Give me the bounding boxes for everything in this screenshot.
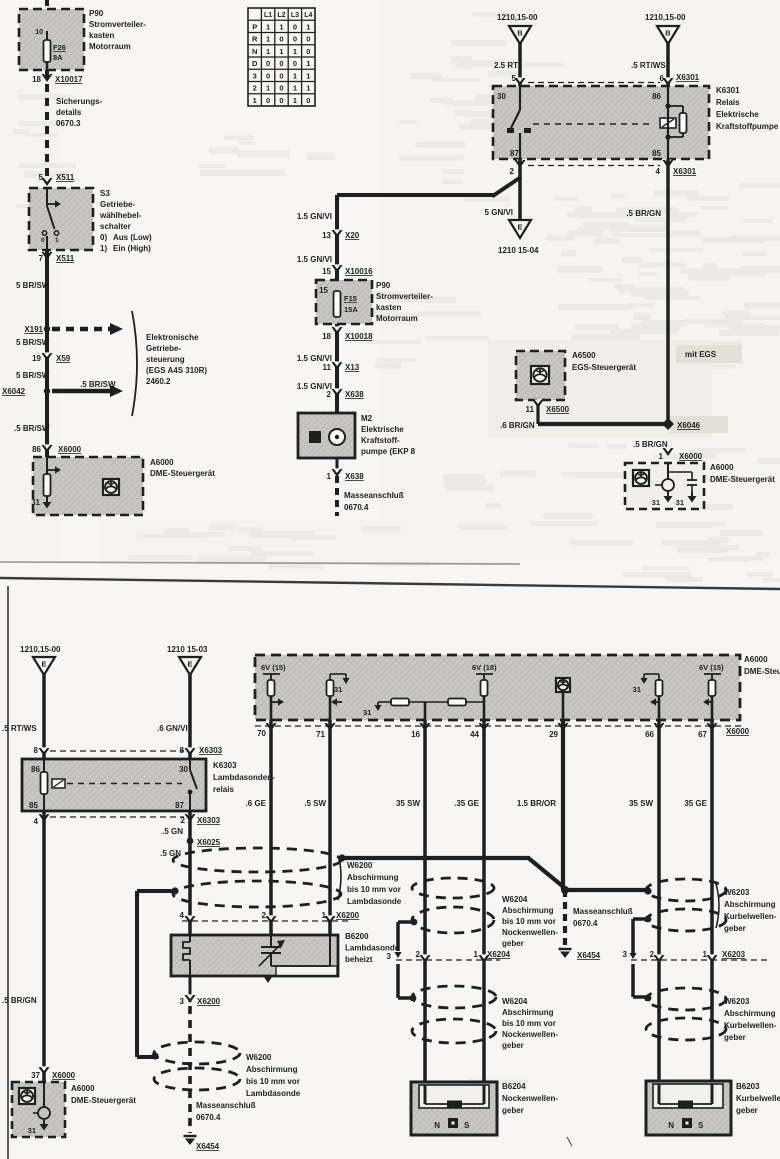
svg-text:.5 SW: .5 SW — [304, 799, 326, 808]
svg-text:0: 0 — [293, 35, 297, 44]
connector X20 pin 13 — [297, 212, 360, 240]
dashed wire P90 to S3 — [45, 70, 49, 183]
svg-text:0: 0 — [266, 96, 270, 105]
camshaft sensor B6204 — [411, 1082, 558, 1135]
svg-text:X59: X59 — [56, 354, 71, 363]
svg-text:bis 10 mm vor: bis 10 mm vor — [502, 1019, 556, 1028]
connector X6000 pin 86 — [32, 444, 82, 454]
svg-text:.5 BR/GN: .5 BR/GN — [626, 209, 661, 218]
svg-text:1: 1 — [55, 237, 59, 244]
svg-text:geber: geber — [502, 1106, 524, 1115]
svg-text:1: 1 — [266, 47, 270, 56]
svg-text:Nockenwellen-: Nockenwellen- — [502, 928, 558, 937]
svg-text:Nockenwellen-: Nockenwellen- — [502, 1030, 558, 1039]
svg-text:X6303: X6303 — [199, 746, 223, 755]
svg-text:W6204: W6204 — [502, 895, 528, 904]
svg-text:S: S — [698, 1121, 704, 1130]
svg-text:B: B — [665, 29, 671, 38]
svg-text:steuerung: steuerung — [146, 355, 185, 364]
svg-text:L3: L3 — [291, 12, 299, 19]
svg-text:0: 0 — [41, 237, 45, 244]
svg-text:DME-Steue: DME-Steue — [744, 667, 780, 676]
svg-text:2: 2 — [253, 84, 257, 93]
gear selector switch S3 — [29, 188, 152, 253]
svg-text:1: 1 — [279, 22, 283, 31]
svg-text:F15: F15 — [344, 294, 357, 303]
svg-text:Masseanschluß: Masseanschluß — [344, 491, 404, 500]
svg-text:X10018: X10018 — [345, 332, 373, 341]
svg-text:X13: X13 — [345, 363, 360, 372]
svg-text:geber: geber — [736, 1106, 758, 1115]
svg-text:5 BR/SW: 5 BR/SW — [16, 338, 50, 347]
svg-text:X511: X511 — [56, 254, 75, 263]
svg-text:Stromverteiler-: Stromverteiler- — [376, 292, 433, 301]
svg-text:N: N — [668, 1121, 674, 1130]
svg-text:X6000: X6000 — [58, 445, 82, 454]
svg-text:1: 1 — [253, 96, 257, 105]
svg-text:.5 BR/SW: .5 BR/SW — [80, 380, 116, 389]
6V(15) supply pin 67 — [699, 663, 724, 720]
svg-text:Kurbelwellen-: Kurbelwellen- — [724, 912, 777, 921]
svg-text:Abschirmung: Abschirmung — [347, 873, 399, 882]
svg-text:X638: X638 — [345, 472, 364, 481]
svg-text:Lambdasonde: Lambdasonde — [345, 944, 400, 953]
svg-text:A6000: A6000 — [710, 463, 734, 472]
shield bracket W6200 left — [137, 891, 175, 1060]
svg-text:X191: X191 — [24, 325, 43, 334]
shield W6204 (lower) — [412, 986, 558, 1050]
svg-text:2.5 RT: 2.5 RT — [494, 61, 518, 70]
svg-text:1.5 GN/VI: 1.5 GN/VI — [297, 354, 332, 363]
wire 35 GE (crank) — [710, 720, 714, 1104]
wire 35 SW (cam) — [423, 720, 427, 1104]
internal divider chain to 31 — [363, 699, 484, 721]
wire .5 GN with X6025 — [160, 811, 221, 935]
svg-text:37: 37 — [31, 1071, 40, 1080]
svg-text:X6025: X6025 — [197, 838, 221, 847]
shield bracket W6204 — [394, 922, 416, 1001]
connector line X6203 — [623, 950, 770, 963]
svg-text:1210 15-03: 1210 15-03 — [167, 645, 208, 654]
svg-text:15: 15 — [319, 286, 328, 295]
svg-text:B6203: B6203 — [736, 1082, 760, 1091]
svg-text:2: 2 — [650, 950, 655, 959]
svg-text:0670.3: 0670.3 — [56, 119, 81, 128]
svg-text:30: 30 — [179, 765, 188, 774]
svg-text:0: 0 — [293, 22, 297, 31]
connector line X6000 (strip) — [255, 722, 750, 739]
lambda sensor B6200 — [171, 932, 400, 983]
connector X59 pin 19 — [32, 352, 71, 363]
svg-text:.5 RT/WS: .5 RT/WS — [631, 61, 666, 70]
svg-text:A6500: A6500 — [572, 351, 596, 360]
svg-text:S3: S3 — [100, 189, 110, 198]
svg-text:Kurbelwellen-: Kurbelwellen- — [736, 1094, 780, 1103]
shield W6200 (lower) — [154, 1042, 301, 1098]
svg-text:X6000: X6000 — [52, 1071, 76, 1080]
svg-text:44: 44 — [470, 730, 479, 739]
connector X6000 pin 1 — [659, 447, 703, 461]
wire stub top — [45, 0, 49, 9]
svg-text:31: 31 — [676, 498, 684, 507]
svg-text:1: 1 — [306, 84, 310, 93]
svg-text:0: 0 — [279, 71, 283, 80]
svg-text:A6000: A6000 — [150, 458, 174, 467]
svg-text:66: 66 — [645, 730, 654, 739]
svg-text:5 BR/SW: 5 BR/SW — [16, 281, 50, 290]
svg-text:86: 86 — [32, 445, 41, 454]
svg-text:6V (15): 6V (15) — [261, 663, 286, 672]
svg-text:Sicherungs-: Sicherungs- — [56, 97, 103, 106]
lambda sensor relay K6303 — [22, 759, 275, 811]
wire 1.5 BR/OR — [561, 720, 565, 890]
arrow E 1210 15-04 — [498, 220, 539, 255]
svg-text:31: 31 — [363, 708, 371, 717]
wire 35 SW (crank) — [657, 720, 661, 1104]
dashed wire to ground — [335, 476, 339, 516]
svg-text:31: 31 — [633, 685, 641, 694]
connector line X6303 top — [50, 750, 184, 752]
wire 1.5 GN/VI trunk + feed to relay — [335, 195, 339, 413]
svg-text:1210,15-00: 1210,15-00 — [645, 13, 686, 22]
background highlight panels — [488, 340, 712, 438]
power distribution box P90 (top left) — [19, 9, 146, 70]
DME control unit A6000 (strip) — [255, 655, 780, 720]
svg-text:1: 1 — [266, 84, 270, 93]
svg-text:details: details — [56, 108, 82, 117]
page frame left edge — [7, 586, 9, 1159]
svg-text:kasten: kasten — [376, 303, 401, 312]
shield W6200 (upper) — [171, 848, 401, 907]
dashed wire to X6454 ground — [184, 1006, 256, 1151]
svg-text:0: 0 — [266, 71, 270, 80]
svg-text:K6301: K6301 — [716, 86, 740, 95]
svg-text:R: R — [252, 35, 258, 44]
svg-text:X6200: X6200 — [336, 911, 360, 920]
svg-text:.6 GN/VI: .6 GN/VI — [157, 724, 188, 733]
svg-text:B: B — [517, 29, 523, 38]
svg-text:1: 1 — [474, 950, 479, 959]
svg-text:X6203: X6203 — [722, 950, 746, 959]
EGS control unit A6500 — [516, 351, 636, 400]
svg-text:E: E — [517, 223, 522, 232]
connector X511 pin 7 — [39, 251, 75, 263]
connector line X6301 bottom — [528, 165, 660, 167]
svg-text:1: 1 — [306, 71, 310, 80]
svg-text:geber: geber — [502, 1041, 524, 1050]
svg-text:1: 1 — [703, 950, 708, 959]
svg-text:1: 1 — [306, 59, 310, 68]
svg-text:31: 31 — [652, 498, 660, 507]
svg-text:1: 1 — [266, 35, 270, 44]
svg-text:4: 4 — [180, 911, 185, 920]
svg-text:0: 0 — [279, 84, 283, 93]
wire .6 GE — [269, 720, 273, 935]
svg-text:E: E — [41, 660, 46, 669]
svg-text:Kraftstoffpumpe: Kraftstoffpumpe — [716, 122, 779, 131]
shield drain bus to ground — [342, 858, 648, 960]
svg-text:L2: L2 — [277, 12, 285, 19]
svg-text:Lambdasonde: Lambdasonde — [246, 1089, 301, 1098]
svg-text:0): 0) — [100, 233, 107, 242]
divider lines — [0, 562, 520, 564]
svg-text:W6200: W6200 — [347, 861, 373, 870]
svg-text:.5 BR/GN: .5 BR/GN — [2, 996, 37, 1005]
svg-text:2460.2: 2460.2 — [146, 377, 171, 386]
svg-text:87: 87 — [510, 149, 519, 158]
svg-text:Abschirmung: Abschirmung — [502, 1008, 554, 1017]
svg-text:X511: X511 — [56, 173, 75, 182]
svg-text:N: N — [434, 1121, 440, 1130]
svg-text:X10017: X10017 — [55, 75, 83, 84]
connector X10017 pin 18 — [32, 73, 83, 84]
svg-text:Kurbelwellen-: Kurbelwellen- — [724, 1021, 777, 1030]
svg-text:W6204: W6204 — [502, 997, 528, 1006]
svg-text:Abschirmung: Abschirmung — [246, 1065, 298, 1074]
svg-text:0: 0 — [279, 96, 283, 105]
svg-text:Abschirmung: Abschirmung — [724, 900, 776, 909]
wire .35 GE (cam) — [482, 720, 486, 1104]
module icon pin 29 — [556, 678, 570, 720]
svg-text:X6454: X6454 — [577, 951, 601, 960]
svg-text:5 BR/SW: 5 BR/SW — [16, 371, 50, 380]
svg-text:0: 0 — [306, 96, 310, 105]
fuse F26 8A — [44, 40, 51, 62]
connector X10018 pin 18 — [322, 326, 373, 341]
svg-text:Motorraum: Motorraum — [376, 314, 418, 323]
connector line X6303 bottom — [34, 813, 221, 826]
svg-text:1: 1 — [306, 22, 310, 31]
feed arrow E 1210 15-03 — [157, 645, 223, 759]
svg-text:3: 3 — [387, 952, 392, 961]
svg-text:schalter: schalter — [100, 222, 131, 231]
svg-text:Relais: Relais — [716, 98, 740, 107]
svg-text:1.5 BR/OR: 1.5 BR/OR — [517, 799, 556, 808]
svg-text:2: 2 — [510, 167, 515, 176]
svg-text:Elektronische: Elektronische — [146, 333, 199, 342]
svg-text:A6000: A6000 — [71, 1084, 95, 1093]
svg-text:2: 2 — [181, 816, 186, 825]
svg-text:Kraftstoff-: Kraftstoff- — [361, 436, 400, 445]
connector X13 pin 11 — [323, 361, 360, 372]
connector line X6204 — [387, 950, 511, 963]
DME control unit A6000 (upper left) — [31, 457, 143, 515]
svg-text:7: 7 — [39, 254, 44, 263]
svg-text:19: 19 — [32, 354, 41, 363]
svg-text:3: 3 — [180, 997, 185, 1006]
fuel pump relay K6301 — [493, 77, 779, 159]
svg-text:P90: P90 — [376, 281, 391, 290]
internal resistor pin 66 — [633, 674, 663, 720]
svg-text:18: 18 — [32, 75, 41, 84]
svg-text:Masseanschluß: Masseanschluß — [196, 1101, 256, 1110]
svg-text:pumpe (EKP 8: pumpe (EKP 8 — [361, 447, 416, 456]
small mark bottom center — [567, 1137, 572, 1146]
svg-text:1210,15-00: 1210,15-00 — [20, 645, 61, 654]
DME control unit A6000 (lower left) — [12, 1082, 136, 1137]
svg-text:4: 4 — [34, 817, 39, 826]
fuse box P90 F15 15A — [316, 280, 433, 324]
svg-text:2: 2 — [262, 911, 267, 920]
connector line X6200 — [180, 911, 360, 924]
svg-text:W6203: W6203 — [724, 888, 750, 897]
svg-text:Elektrische: Elektrische — [361, 425, 404, 434]
svg-text:Ein (High): Ein (High) — [113, 244, 151, 253]
svg-text:DME-Steuergerät: DME-Steuergerät — [150, 469, 215, 478]
svg-text:S: S — [464, 1121, 470, 1130]
svg-text:71: 71 — [316, 730, 325, 739]
svg-text:1210 15-04: 1210 15-04 — [498, 246, 539, 255]
svg-text:.5 GN: .5 GN — [162, 827, 183, 836]
svg-text:1: 1 — [322, 911, 327, 920]
svg-text:Masseanschluß: Masseanschluß — [573, 907, 633, 916]
svg-text:15A: 15A — [344, 305, 358, 314]
svg-text:X6204: X6204 — [487, 950, 511, 959]
svg-text:8A: 8A — [53, 53, 63, 62]
svg-text:1: 1 — [279, 47, 283, 56]
gear position truth table — [248, 8, 315, 106]
svg-text:.5 BR/GN: .5 BR/GN — [633, 440, 668, 449]
svg-text:6V (15): 6V (15) — [699, 663, 724, 672]
svg-text:0: 0 — [306, 47, 310, 56]
svg-text:kasten: kasten — [89, 31, 114, 40]
svg-text:67: 67 — [698, 730, 707, 739]
svg-text:1: 1 — [293, 71, 297, 80]
svg-text:X20: X20 — [345, 231, 360, 240]
svg-text:wählhebel-: wählhebel- — [99, 211, 142, 220]
svg-text:mit EGS: mit EGS — [685, 350, 717, 359]
svg-text:1: 1 — [327, 472, 332, 481]
svg-text:beheizt: beheizt — [345, 955, 373, 964]
svg-text:relais: relais — [213, 785, 234, 794]
svg-text:5 GN/VI: 5 GN/VI — [485, 208, 513, 217]
shield W6203 (upper) — [644, 879, 776, 933]
svg-text:F26: F26 — [53, 43, 66, 52]
svg-text:10: 10 — [35, 29, 43, 36]
svg-text:35 SW: 35 SW — [396, 799, 420, 808]
svg-text:Abschirmung: Abschirmung — [502, 906, 554, 915]
EGS note bracket — [132, 311, 207, 416]
svg-text:86: 86 — [652, 92, 661, 101]
svg-text:1: 1 — [293, 96, 297, 105]
svg-text:4: 4 — [656, 167, 661, 176]
svg-text:D: D — [252, 59, 258, 68]
svg-text:8: 8 — [34, 746, 39, 755]
svg-text:70: 70 — [257, 729, 266, 738]
relay outputs — [485, 159, 520, 220]
svg-text:X6046: X6046 — [677, 421, 701, 430]
svg-text:0: 0 — [279, 35, 283, 44]
svg-text:bis 10 mm vor: bis 10 mm vor — [502, 917, 556, 926]
shield W6204 (upper) — [411, 878, 559, 948]
svg-text:DME-Steuergerät: DME-Steuergerät — [71, 1096, 136, 1105]
svg-text:29: 29 — [549, 730, 558, 739]
svg-text:85: 85 — [652, 149, 661, 158]
svg-text:X6303: X6303 — [197, 816, 221, 825]
svg-text:bis 10 mm vor: bis 10 mm vor — [246, 1077, 300, 1086]
svg-text:87: 87 — [175, 801, 184, 810]
connector X6500 pin 11 — [526, 399, 570, 424]
svg-text:X6000: X6000 — [679, 452, 703, 461]
svg-text:1210,15-00: 1210,15-00 — [497, 13, 538, 22]
svg-text:N: N — [252, 47, 257, 56]
svg-text:0: 0 — [306, 35, 310, 44]
svg-text:31: 31 — [334, 685, 342, 694]
svg-text:31: 31 — [31, 498, 40, 507]
svg-text:X638: X638 — [345, 390, 364, 399]
svg-text:X6301: X6301 — [676, 73, 700, 82]
svg-text:1: 1 — [293, 47, 297, 56]
svg-text:31: 31 — [28, 1126, 36, 1135]
connector X511 pin 5 — [39, 173, 75, 186]
svg-text:85: 85 — [29, 801, 38, 810]
svg-text:.6 BR/GN: .6 BR/GN — [500, 421, 535, 430]
svg-text:W6203: W6203 — [724, 997, 750, 1006]
svg-text:35 GE: 35 GE — [684, 799, 707, 808]
connector X638 pin 1 — [327, 458, 365, 481]
DME control unit A6000 (upper right) — [625, 463, 775, 509]
svg-text:0670.4: 0670.4 — [573, 919, 598, 928]
svg-text:bis 10 mm vor: bis 10 mm vor — [347, 885, 401, 894]
svg-text:EGS-Steuergerät: EGS-Steuergerät — [572, 363, 636, 372]
svg-text:P90: P90 — [89, 9, 104, 18]
svg-text:86: 86 — [31, 765, 40, 774]
internal resistor pin 71 — [327, 674, 350, 720]
svg-text:X6454: X6454 — [196, 1142, 220, 1151]
svg-text:15: 15 — [322, 267, 331, 276]
svg-text:13: 13 — [322, 231, 331, 240]
feed arrow B left 1210,15-00 — [494, 13, 538, 86]
wire .5 BR/GN to DME — [2, 811, 76, 1082]
svg-text:M2: M2 — [361, 414, 373, 423]
connector X638 pin 2 — [327, 388, 365, 399]
feed arrow E 1210,15-00 (lower left) — [2, 645, 61, 759]
svg-text:11: 11 — [526, 405, 535, 414]
svg-text:1: 1 — [659, 452, 664, 461]
connector X6200 pin 3 — [180, 976, 221, 1006]
svg-text:A6000: A6000 — [744, 655, 768, 664]
svg-text:Getriebe-: Getriebe- — [100, 200, 135, 209]
svg-text:2: 2 — [327, 390, 332, 399]
svg-text:0670.4: 0670.4 — [196, 1113, 221, 1122]
svg-text:0: 0 — [266, 59, 270, 68]
svg-text:geber: geber — [724, 924, 746, 933]
svg-text:B6204: B6204 — [502, 1082, 526, 1091]
wire 5 BR/SW down left column — [45, 250, 49, 457]
svg-text:3: 3 — [253, 71, 257, 80]
svg-text:Elektrische: Elektrische — [716, 110, 759, 119]
svg-text:18: 18 — [322, 332, 331, 341]
svg-text:6V (18): 6V (18) — [472, 663, 497, 672]
svg-text:(EGS A4S 310R): (EGS A4S 310R) — [146, 366, 207, 375]
svg-text:K6303: K6303 — [213, 761, 237, 770]
wire to junction X6046 — [538, 422, 668, 426]
svg-text:30: 30 — [497, 92, 506, 101]
svg-text:Abschirmung: Abschirmung — [724, 1009, 776, 1018]
svg-text:L1: L1 — [264, 12, 272, 19]
svg-text:W6200: W6200 — [246, 1053, 272, 1062]
svg-text:2: 2 — [416, 950, 421, 959]
crankshaft sensor B6203 — [646, 1081, 780, 1135]
svg-text:X6200: X6200 — [197, 997, 221, 1006]
svg-text:1.5 GN/VI: 1.5 GN/VI — [297, 255, 332, 264]
shield W6203 (lower) — [646, 988, 777, 1042]
svg-text:1.5 GN/VI: 1.5 GN/VI — [297, 212, 332, 221]
svg-text:16: 16 — [411, 730, 420, 739]
svg-text:Lambdasonden-: Lambdasonden- — [213, 773, 275, 782]
svg-text:X6000: X6000 — [726, 727, 750, 736]
svg-text:.35 GE: .35 GE — [454, 799, 480, 808]
